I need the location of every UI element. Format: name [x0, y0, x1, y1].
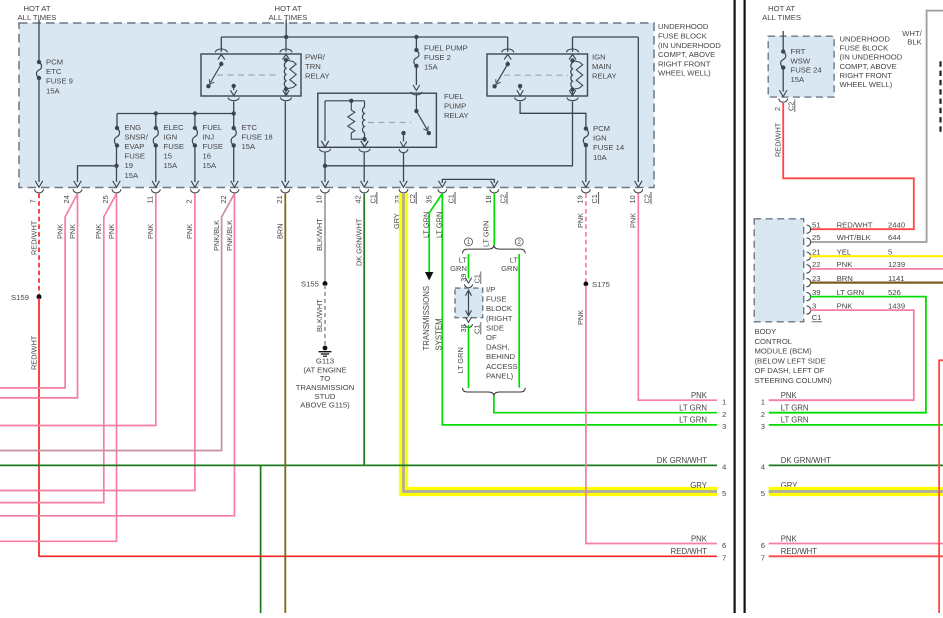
wire LT GRN pin18 down: [493, 194, 495, 245]
pin 42 C1 connector symbol: [360, 181, 369, 193]
pin: PWR/TRN relay switch output (bottom): [228, 98, 239, 101]
svg-text:42: 42: [354, 195, 363, 203]
BCM pin 21 cup: [807, 252, 811, 260]
wire PNK/BLK pin22 right: [0, 194, 235, 516]
BCM pin 51 cup: [807, 225, 811, 233]
svg-text:2: 2: [184, 199, 193, 203]
svg-text:PWR/: PWR/: [305, 53, 326, 62]
svg-text:STEERING COLUMN): STEERING COLUMN): [755, 376, 833, 385]
BCM pin 3 cup: [807, 306, 811, 314]
svg-text:LT: LT: [459, 255, 468, 264]
svg-text:DASH,: DASH,: [486, 343, 510, 352]
wire: fuse 2 to fuel pump relay: [415, 66, 417, 85]
svg-text:1: 1: [722, 398, 726, 407]
svg-text:TRANSMISSION: TRANSMISSION: [296, 383, 355, 392]
svg-text:FRT: FRT: [791, 47, 806, 56]
svg-text:G113: G113: [316, 357, 334, 366]
fuse ENG SNSR/EVAP FUSE 19 15A: [114, 126, 119, 148]
wire: fuse 16 to pin 2: [194, 146, 196, 183]
svg-text:5: 5: [888, 247, 892, 256]
svg-text:WHT/: WHT/: [902, 29, 923, 38]
svg-text:3: 3: [812, 301, 816, 310]
relay box PWR/TRN: [201, 54, 301, 96]
svg-text:22: 22: [812, 260, 821, 269]
svg-text:PNK: PNK: [185, 224, 194, 239]
svg-text:WSW: WSW: [791, 56, 811, 65]
svg-text:S159: S159: [11, 293, 29, 302]
wire PNK dashed pin19 to S175: [585, 194, 587, 282]
svg-text:HOT AT: HOT AT: [274, 4, 301, 13]
svg-text:BODY: BODY: [755, 327, 777, 336]
wire GRY yellow highlight (right page): [769, 487, 943, 496]
svg-text:PCM: PCM: [593, 124, 610, 133]
fuse ELEC IGN FUSE 15 15A: [153, 126, 158, 148]
svg-text:DK GRN/WHT: DK GRN/WHT: [657, 456, 707, 465]
svg-text:GRN: GRN: [450, 264, 467, 273]
wire PNK BCM 22: [810, 268, 943, 270]
svg-text:PANEL): PANEL): [486, 371, 514, 380]
svg-text:C2: C2: [787, 102, 796, 111]
splice S159: [37, 294, 42, 299]
svg-text:FUSE 9: FUSE 9: [46, 77, 73, 86]
I/P fuse block internal wire: [468, 291, 470, 315]
svg-text:RED/WHT: RED/WHT: [774, 122, 783, 157]
wire LT GRN option1 upper: [468, 254, 470, 279]
svg-text:PCM: PCM: [46, 58, 63, 67]
wire PNK pin25 left: [0, 194, 117, 503]
pin 21 connector symbol: [281, 181, 290, 193]
svg-text:TRANSMISSIONS: TRANSMISSIONS: [422, 286, 431, 351]
svg-text:PNK: PNK: [94, 224, 103, 239]
svg-text:25: 25: [812, 233, 821, 242]
svg-text:BLK: BLK: [907, 38, 922, 47]
svg-text:C2: C2: [499, 194, 508, 203]
svg-text:1141: 1141: [888, 274, 905, 283]
svg-text:RELAY: RELAY: [592, 72, 617, 81]
fuse FUEL INJ FUSE 16 15A: [192, 126, 197, 148]
node: junction at y166: [323, 164, 327, 168]
switch: FUEL PUMP relay: [414, 109, 418, 113]
svg-text:BRN: BRN: [276, 223, 285, 239]
wire LT GRN merged (row 2): [494, 396, 717, 413]
wire: IGN switch output to fuse 14: [520, 102, 586, 129]
svg-text:YEL: YEL: [837, 247, 852, 256]
switch output: FUEL PUMP relay: [401, 131, 405, 135]
svg-text:C1: C1: [369, 194, 378, 203]
svg-text:BLK/WHT: BLK/WHT: [315, 299, 324, 332]
wire BLK/WHT pin10 to S155: [324, 194, 326, 282]
svg-text:HOT AT: HOT AT: [768, 4, 795, 13]
svg-text:39: 39: [459, 274, 468, 282]
svg-text:21: 21: [275, 195, 284, 203]
svg-text:C1: C1: [812, 313, 822, 322]
svg-text:7: 7: [761, 554, 765, 563]
wire RED/WHT row 7 across: [39, 555, 717, 557]
ground G113: [323, 346, 328, 351]
pin 18 C2 connector symbol: [490, 181, 499, 193]
svg-text:PNK: PNK: [146, 224, 155, 239]
svg-text:STUD: STUD: [315, 392, 336, 401]
svg-text:4: 4: [722, 463, 727, 472]
wire: hot feed to PCM ETC fuse 9: [38, 20, 40, 63]
svg-text:LT GRN: LT GRN: [456, 347, 465, 373]
node: bus junction at fuse 2: [414, 35, 418, 39]
splice S155: [323, 281, 328, 286]
svg-text:3: 3: [722, 422, 726, 431]
svg-text:LT: LT: [510, 255, 519, 264]
svg-text:FUSE BLOCK: FUSE BLOCK: [658, 32, 708, 41]
svg-text:PNK: PNK: [576, 310, 585, 325]
wire: fp relay mid pin to pin 42: [363, 153, 365, 183]
wire RED/WHT S159 down: [38, 298, 40, 557]
svg-text:WHEEL WELL): WHEEL WELL): [840, 80, 893, 89]
wire PNK pin11: [0, 194, 156, 426]
svg-text:FUEL PUMP: FUEL PUMP: [424, 44, 468, 53]
wire: fuse 9 to pin 7: [38, 78, 40, 182]
mech link: FUEL PUMP relay: [368, 122, 411, 124]
pin 11 connector symbol: [151, 181, 160, 193]
pin: fuel pump relay switch (top): [413, 85, 420, 91]
svg-text:ELEC: ELEC: [164, 123, 185, 132]
option 1 circle: [465, 238, 473, 246]
wire: hot feed 2 into box: [285, 20, 287, 38]
svg-text:644: 644: [888, 233, 902, 242]
svg-text:SIDE: SIDE: [486, 323, 504, 332]
svg-text:RIGHT FRONT: RIGHT FRONT: [840, 71, 893, 80]
svg-text:10: 10: [315, 195, 324, 203]
BCM pin 22 cup: [807, 265, 811, 273]
svg-text:6: 6: [761, 541, 765, 550]
pin 39 C1 into I/P fuse block: [465, 278, 473, 288]
wire PNK pin24 right: [0, 194, 78, 398]
wire: fuse 15 to pin 11: [155, 146, 157, 183]
page break line 1: [733, 0, 735, 613]
splice S175: [584, 282, 589, 287]
switch output: IGN relay: [518, 84, 522, 88]
wire LT GRN pin35 to transmissions arrow: [429, 194, 442, 272]
wire: relay left leg: [324, 101, 326, 141]
svg-text:TO: TO: [320, 374, 331, 383]
wire GRY yellow highlight: [404, 193, 718, 492]
svg-text:ALL TIMES: ALL TIMES: [18, 13, 57, 22]
svg-text:FUSE 14: FUSE 14: [593, 143, 625, 152]
pin 35 C1 connector symbol: [438, 181, 447, 193]
svg-text:RED/WHT: RED/WHT: [671, 547, 708, 556]
svg-text:IGN: IGN: [592, 53, 606, 62]
svg-text:PNK: PNK: [56, 224, 65, 239]
svg-text:19: 19: [125, 161, 134, 170]
svg-text:15A: 15A: [164, 161, 179, 170]
wire DK GRN/WHT row 4 across: [0, 464, 717, 466]
wire: relay output to bus: [233, 102, 235, 114]
svg-text:4: 4: [761, 463, 766, 472]
svg-text:PNK: PNK: [68, 224, 77, 239]
wire DK GRN/WHT row 4 (right page): [769, 464, 943, 466]
svg-text:2440: 2440: [888, 220, 905, 229]
svg-text:35: 35: [425, 195, 434, 203]
svg-text:GRY: GRY: [392, 213, 401, 229]
svg-text:FUEL: FUEL: [444, 92, 464, 101]
wire PNK/BLK pin22 left: [0, 194, 235, 451]
wire BLK/WHT dashed S155 to G113: [324, 285, 326, 345]
wire: IGN coil return: [325, 102, 573, 166]
fuse FUEL PUMP FUSE 2 15A: [414, 48, 419, 68]
svg-text:15A: 15A: [46, 86, 61, 95]
svg-text:ABOVE G115): ABOVE G115): [300, 401, 350, 410]
wire BRN BCM 23: [810, 282, 943, 284]
wire: bus drop to fuse 19: [116, 114, 118, 129]
svg-text:PNK: PNK: [691, 391, 708, 400]
svg-text:FUSE 2: FUSE 2: [424, 53, 451, 62]
pin: PWR/TRN relay switch (top): [215, 37, 227, 60]
wire: top bus: [221, 36, 507, 38]
node: coil bottom dot: [362, 137, 366, 141]
svg-text:COMPT, ABOVE: COMPT, ABOVE: [658, 50, 715, 59]
svg-text:3: 3: [761, 422, 765, 431]
wire LT GRN option2: [518, 254, 520, 388]
wire: fuse 14 to pin 19: [585, 145, 587, 182]
svg-text:C2: C2: [643, 194, 652, 203]
svg-text:1439: 1439: [888, 301, 905, 310]
svg-text:BLOCK: BLOCK: [486, 304, 513, 313]
wire: fuse 19 to pins 24/25: [116, 146, 118, 183]
svg-text:HOT AT: HOT AT: [23, 4, 50, 13]
svg-text:526: 526: [888, 288, 901, 297]
svg-text:IGN: IGN: [593, 134, 607, 143]
svg-text:PNK/BLK: PNK/BLK: [225, 220, 234, 251]
wire: relay coil to pin 21: [284, 102, 286, 183]
node: bus dot at fuse 16: [193, 111, 197, 115]
svg-text:BEHIND: BEHIND: [486, 352, 515, 361]
node: bus dot at fuse 15: [154, 111, 158, 115]
svg-text:15A: 15A: [242, 142, 257, 151]
svg-text:11: 11: [145, 196, 154, 204]
svg-text:51: 51: [812, 220, 821, 229]
svg-text:PNK/BLK: PNK/BLK: [212, 220, 221, 251]
wire: coil bottom to pin: [364, 139, 366, 142]
svg-text:24: 24: [62, 195, 71, 203]
pin: fuel pump relay (bottom right): [399, 149, 408, 153]
arrow: fp relay left pin: [322, 142, 329, 148]
wire: bus down to pin 10 C2: [637, 37, 639, 182]
svg-text:2: 2: [761, 410, 765, 419]
underhood fuse block (right page) dashed box: [768, 36, 834, 97]
pin 24 connector symbol: [73, 181, 82, 193]
svg-text:PNK: PNK: [837, 260, 854, 269]
svg-text:5: 5: [722, 489, 726, 498]
node: coil bus dot: [349, 99, 353, 103]
svg-text:DK GRN/WHT: DK GRN/WHT: [355, 218, 364, 266]
pin: PWR/TRN relay coil (bottom): [285, 89, 287, 95]
pin 22 connector symbol: [230, 181, 239, 193]
svg-text:(RIGHT: (RIGHT: [486, 314, 513, 323]
node: bus dot at fuse 18: [232, 111, 236, 115]
switch: PWR/TRN relay contact: [219, 62, 223, 66]
svg-text:ETC: ETC: [242, 123, 258, 132]
wire PNK pin2: [0, 194, 195, 491]
svg-text:2: 2: [773, 107, 782, 111]
wire: bus drop to fuse 16: [194, 114, 196, 129]
svg-text:C1: C1: [590, 194, 599, 203]
wire: fuse 18 to pin 22: [233, 146, 235, 183]
svg-text:RELAY: RELAY: [444, 111, 469, 120]
BCM pin 23 cup: [807, 278, 811, 286]
wire: fuse 24 to pin 2 C2: [782, 68, 784, 92]
svg-text:C2: C2: [408, 194, 417, 203]
pin: IGN relay switch output (bottom): [515, 98, 526, 101]
wire DK GRN/WHT pin42 down: [363, 194, 365, 466]
page break line 2: [743, 0, 745, 613]
svg-text:FUSE: FUSE: [125, 152, 146, 161]
wire: hot feed to FRT WSW fuse: [782, 31, 784, 52]
svg-text:10: 10: [628, 195, 637, 203]
wire RED/WHT to BCM 51: [783, 103, 914, 229]
pin: fuel pump relay (bottom left): [320, 141, 331, 152]
svg-text:21: 21: [812, 247, 821, 256]
svg-text:LT GRN: LT GRN: [435, 212, 444, 238]
svg-text:WHT/BLK: WHT/BLK: [837, 233, 872, 242]
svg-text:7: 7: [29, 199, 38, 203]
svg-text:C1: C1: [447, 194, 456, 203]
svg-text:15A: 15A: [424, 63, 439, 72]
svg-text:23: 23: [812, 274, 821, 283]
underhood fuse block (left page) dashed box: [19, 23, 654, 188]
node: fuse 19 branch: [114, 164, 118, 168]
svg-text:10A: 10A: [593, 153, 608, 162]
svg-text:PNK: PNK: [107, 224, 116, 239]
wire PNK row 6 (right page): [769, 543, 943, 545]
svg-text:LT GRN: LT GRN: [482, 221, 491, 247]
svg-text:FUSE: FUSE: [203, 142, 224, 151]
svg-text:C1: C1: [473, 274, 482, 283]
arrow to transmissions system: [425, 272, 434, 281]
svg-text:OF DASH, LEFT OF: OF DASH, LEFT OF: [755, 366, 825, 375]
svg-text:LT GRN: LT GRN: [421, 212, 430, 238]
arrow: fp relay mid pin: [361, 142, 368, 148]
svg-text:1: 1: [761, 398, 765, 407]
svg-text:LT GRN: LT GRN: [679, 416, 707, 425]
wire: fuel pump relay coil bus: [325, 100, 365, 102]
svg-text:39: 39: [812, 288, 821, 297]
svg-text:LT GRN: LT GRN: [781, 404, 809, 413]
svg-text:ACCESS: ACCESS: [486, 362, 518, 371]
wire DK GRN/WHT branch down: [260, 465, 262, 613]
wire: bus drop to fuse 15: [155, 114, 157, 129]
svg-text:TRN: TRN: [305, 62, 321, 71]
wire LT GRN BCM 39 to row 2: [769, 297, 926, 413]
pin 23 C2 connector symbol: [399, 181, 408, 193]
option merge brace: [463, 388, 526, 397]
wire LT GRN pin35 down (row 3): [442, 194, 717, 425]
mech link: PWR/TRN relay: [217, 74, 280, 76]
svg-text:15: 15: [164, 152, 173, 161]
svg-text:IGN: IGN: [164, 132, 178, 141]
mech link: IGN relay: [504, 74, 568, 76]
svg-text:LT GRN: LT GRN: [781, 416, 809, 425]
svg-text:WHEEL WELL): WHEEL WELL): [658, 69, 711, 78]
I/P fuse block box: [455, 288, 483, 318]
wire: fp relay left pin to pin 10 and IGN coil junction: [324, 153, 326, 183]
right-edge module dashed edge: [939, 61, 941, 132]
svg-text:FUSE 24: FUSE 24: [791, 66, 823, 75]
svg-text:1239: 1239: [888, 260, 905, 269]
pin: fuel pump relay (bottom mid): [359, 141, 370, 152]
switch output: PWR/TRN relay: [232, 84, 236, 88]
relay box IGN MAIN: [487, 54, 588, 96]
svg-text:UNDERHOOD: UNDERHOOD: [840, 35, 891, 44]
wire: fp relay output to pin 23 (inside box): [403, 153, 405, 183]
wire GRY core (right page): [769, 490, 943, 493]
svg-text:7: 7: [722, 554, 726, 563]
wire WHT/BLK from right module to BCM 25: [810, 11, 943, 242]
svg-text:C1: C1: [473, 325, 482, 334]
svg-text:FUEL: FUEL: [203, 123, 223, 132]
pin 25 connector symbol: [112, 181, 121, 193]
svg-text:GRY: GRY: [690, 481, 708, 490]
svg-text:PUMP: PUMP: [444, 102, 466, 111]
wire: bracket pins 35-18: [442, 179, 494, 183]
svg-text:15A: 15A: [125, 171, 140, 180]
wire PNK pin25 right: [0, 194, 117, 542]
svg-text:OF: OF: [486, 333, 497, 342]
wire RED from right edge down: [939, 360, 943, 613]
svg-text:ENG: ENG: [125, 123, 142, 132]
pin: PWR/TRN relay coil (top): [280, 37, 292, 60]
svg-text:ETC: ETC: [46, 67, 62, 76]
svg-text:5: 5: [761, 489, 765, 498]
coil: IGN MAIN relay: [570, 58, 582, 91]
svg-text:PNK: PNK: [837, 301, 854, 310]
svg-text:18: 18: [484, 195, 493, 203]
wire YEL BCM 21: [810, 255, 943, 257]
wire PNK S175 down (row 6): [586, 286, 717, 544]
coil: PWR/TRN relay: [284, 58, 296, 91]
BCM pin 25 cup: [807, 238, 811, 246]
fuse FRT WSW FUSE 24 15A: [781, 49, 786, 70]
svg-text:S175: S175: [592, 280, 610, 289]
svg-text:PNK: PNK: [781, 391, 798, 400]
pin 7 connector symbol: [35, 181, 44, 193]
svg-text:RED/WHT: RED/WHT: [30, 335, 39, 370]
pin: IGN relay coil (top): [567, 37, 579, 60]
svg-text:RED/WHT: RED/WHT: [30, 220, 39, 255]
svg-text:COMPT, ABOVE: COMPT, ABOVE: [840, 62, 897, 71]
svg-text:FUSE 18: FUSE 18: [242, 132, 273, 141]
svg-text:MAIN: MAIN: [592, 62, 611, 71]
svg-text:PNK: PNK: [691, 534, 708, 543]
body control module dashed box: [754, 219, 804, 322]
svg-text:25: 25: [101, 195, 110, 203]
wire PNK BCM 3 to row 1: [769, 310, 914, 400]
fuse PCM IGN FUSE 14 10A: [583, 126, 588, 147]
pin: IGN relay coil (bottom): [572, 90, 574, 95]
wire: bus to fuse 2: [415, 37, 417, 50]
svg-text:GRN: GRN: [501, 264, 518, 273]
BCM pin 39 cup: [807, 292, 811, 300]
svg-text:BLK/WHT: BLK/WHT: [315, 218, 324, 251]
svg-text:2: 2: [722, 410, 726, 419]
svg-text:RIGHT FRONT: RIGHT FRONT: [658, 59, 711, 68]
wire LT GRN row 3 (right page): [769, 424, 943, 426]
option split brace: [463, 245, 526, 254]
svg-text:(IN UNDERHOOD: (IN UNDERHOOD: [658, 41, 721, 50]
svg-text:RELAY: RELAY: [305, 72, 330, 81]
coil: FUEL PUMP relay: [348, 101, 365, 139]
svg-text:16: 16: [203, 152, 212, 161]
wire RED/WHT dashed pin7 to S159: [38, 194, 40, 295]
svg-text:ALL TIMES: ALL TIMES: [762, 13, 801, 22]
svg-text:BRN: BRN: [837, 274, 853, 283]
